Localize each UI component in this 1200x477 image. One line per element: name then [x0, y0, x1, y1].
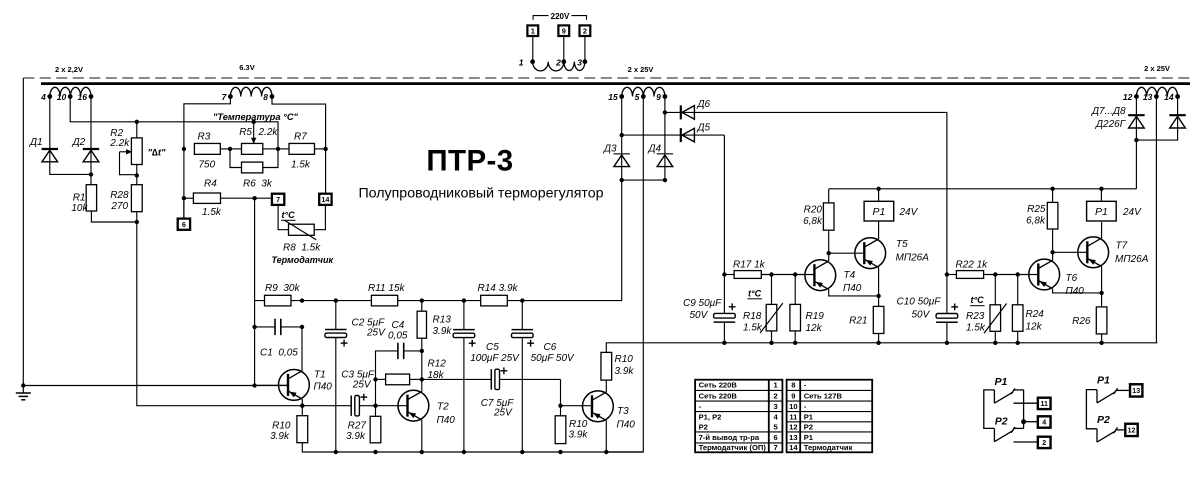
transistor T7 MP26A	[1078, 237, 1149, 268]
wire tap7-bridge	[184, 97, 231, 149]
resistor R4 1.5k	[184, 179, 272, 218]
svg-text:P2: P2	[1097, 414, 1110, 426]
svg-text:"Температура °С": "Температура °С"	[213, 112, 299, 122]
svg-text:T3: T3	[617, 406, 629, 417]
svg-text:C5: C5	[486, 342, 499, 353]
node R5-R7	[276, 147, 280, 151]
svg-text:2: 2	[1042, 440, 1046, 447]
wire P1a top	[878, 189, 880, 202]
node R27 bottom	[373, 450, 377, 454]
wire D1 anode	[50, 162, 91, 175]
node T1 collector-rail	[300, 298, 304, 302]
node C1 right	[300, 325, 304, 329]
wire top rail	[829, 188, 1137, 190]
secondary winding 6.3V	[222, 63, 275, 102]
svg-text:R22 1k: R22 1k	[956, 259, 989, 270]
wire D7 out down	[1135, 140, 1137, 189]
node contact common	[1021, 419, 1026, 424]
wire tap9 down	[664, 97, 666, 181]
wire T5 emitter	[878, 267, 880, 296]
svg-text:R5: R5	[239, 127, 252, 138]
node R24 top	[1016, 272, 1020, 276]
resistor R17 1k	[724, 259, 815, 278]
node T5 base	[827, 251, 831, 255]
relay contact P1 (group 2)	[1086, 375, 1117, 429]
svg-text:16: 16	[78, 92, 88, 102]
node D4-D6	[663, 110, 667, 114]
wire bridge left vertical	[183, 149, 185, 219]
node T6-T7 emitters	[1099, 291, 1103, 295]
wire C4 right	[404, 350, 422, 352]
node R23 top	[993, 272, 997, 276]
node R3-R5	[228, 147, 232, 151]
svg-text:П40: П40	[1066, 286, 1085, 297]
node R23 bottom	[993, 341, 997, 345]
wire main rail	[255, 180, 622, 301]
svg-text:7: 7	[276, 195, 280, 204]
svg-text:10: 10	[789, 402, 797, 411]
svg-text:Д7...Д8: Д7...Д8	[1091, 106, 1126, 117]
svg-text:1.5k: 1.5k	[202, 207, 222, 218]
wire tap13 down to 0V rail	[1155, 97, 1157, 343]
svg-text:24V: 24V	[1122, 207, 1142, 218]
svg-text:Д5: Д5	[697, 123, 711, 134]
svg-text:Термодатчик: Термодатчик	[272, 255, 334, 265]
diode D4	[648, 144, 674, 167]
svg-text:C6: C6	[544, 342, 557, 353]
svg-text:Термодатчик: Термодатчик	[804, 443, 853, 452]
wire D7-D8 join	[1136, 129, 1177, 141]
svg-text:6,8k: 6,8k	[803, 216, 823, 227]
transistor T3 P40	[583, 391, 636, 431]
node R2-R28	[135, 173, 139, 177]
svg-text:750: 750	[199, 159, 216, 170]
svg-text:11: 11	[1040, 401, 1048, 408]
svg-text:T5: T5	[896, 239, 908, 250]
resistor R7 1.5k	[278, 131, 326, 170]
svg-text:3: 3	[773, 402, 777, 411]
transformer core bar	[41, 82, 1190, 85]
svg-text:14: 14	[1164, 92, 1174, 102]
svg-text:5: 5	[635, 92, 640, 102]
svg-text:R21: R21	[849, 316, 867, 327]
wire R2 bottom	[136, 165, 138, 185]
terminal 1	[527, 25, 538, 36]
resistor R6 3k	[230, 149, 278, 189]
svg-text:25V: 25V	[366, 327, 386, 338]
wire tap10	[70, 97, 137, 122]
terminal 12	[1125, 424, 1137, 436]
node R7 right	[323, 147, 327, 151]
secondary winding 2x25V right	[1123, 64, 1180, 102]
svg-text:t°C: t°C	[971, 295, 985, 305]
node R22 left	[945, 272, 949, 276]
svg-text:R7: R7	[294, 131, 307, 142]
transistor T2 P40	[398, 390, 455, 426]
svg-text:1: 1	[519, 58, 524, 68]
wire T1 emitter	[301, 399, 303, 416]
node R12 left	[373, 377, 377, 381]
resistor R13 3.9k	[417, 301, 452, 351]
wire R7-term14	[325, 149, 327, 194]
node R26 bottom	[1099, 341, 1103, 345]
wire C7-T3 base	[560, 379, 562, 405]
node C10 bottom	[945, 341, 949, 345]
svg-text:25V: 25V	[352, 380, 372, 391]
node R4-term7	[252, 196, 256, 200]
svg-text:Д1: Д1	[29, 137, 43, 148]
svg-text:Р2: Р2	[699, 422, 708, 431]
wire T4 collector	[828, 253, 830, 261]
node D3-D5	[620, 133, 624, 137]
label 220V	[551, 12, 570, 21]
wire P1b top	[1100, 189, 1102, 202]
wire contact to terminal 2	[1014, 441, 1038, 443]
svg-text:0,05: 0,05	[388, 330, 408, 341]
primary winding W1 220V	[519, 58, 588, 71]
svg-text:R26: R26	[1072, 316, 1091, 327]
svg-text:T4: T4	[844, 270, 856, 281]
svg-text:12: 12	[789, 422, 797, 431]
node C5-rail	[462, 298, 466, 302]
svg-text:3.9k: 3.9k	[433, 326, 453, 337]
node C5 bottom	[462, 450, 466, 454]
resistor R26	[1072, 293, 1107, 343]
svg-text:t°C: t°C	[282, 210, 296, 220]
svg-text:Термодатчик (ОП): Термодатчик (ОП)	[699, 443, 767, 452]
svg-text:9: 9	[656, 92, 661, 102]
svg-text:R18: R18	[743, 311, 762, 322]
svg-text:R10: R10	[569, 419, 588, 430]
terminal table left	[695, 380, 782, 453]
relay contact P2 (group 2)	[1097, 414, 1118, 442]
svg-text:Р1: Р1	[804, 433, 814, 442]
svg-text:2 x 2,2V: 2 x 2,2V	[55, 65, 83, 74]
thermistor R23 1.5k	[966, 275, 1007, 343]
wire terminal2-tap3	[584, 36, 586, 62]
svg-text:C9 50μF: C9 50μF	[683, 298, 722, 309]
svg-text:Д3: Д3	[603, 144, 617, 155]
wire T7 collector	[1101, 222, 1103, 238]
relay coil P1 (right)	[1087, 201, 1143, 221]
wire T6 emitter	[1053, 289, 1102, 293]
svg-text:2 x 25V: 2 x 25V	[628, 65, 654, 74]
terminal 13	[1130, 384, 1142, 396]
terminal 6	[178, 198, 190, 230]
svg-text:7-й вывод тр-ра: 7-й вывод тр-ра	[699, 433, 760, 442]
svg-text:R1: R1	[73, 193, 86, 204]
svg-text:Д6: Д6	[697, 99, 711, 110]
wire T6 collector	[1052, 252, 1054, 260]
svg-text:50V: 50V	[912, 310, 931, 321]
resistor R1 10k	[71, 185, 96, 214]
svg-text:13: 13	[1132, 388, 1140, 395]
node R24 bottom	[1016, 341, 1020, 345]
svg-text:Полупроводниковый терморегулят: Полупроводниковый терморегулятор	[358, 186, 603, 202]
wire bridge bottom	[622, 179, 665, 181]
svg-text:Сеть 127В: Сеть 127В	[804, 391, 843, 400]
svg-text:9: 9	[791, 391, 795, 400]
secondary winding 2x2.2V	[40, 65, 93, 102]
wire C4 branch	[376, 351, 398, 406]
node T2 base	[373, 404, 377, 408]
svg-text:14: 14	[789, 443, 798, 452]
svg-text:Сеть 220В: Сеть 220В	[699, 391, 738, 400]
thermistor R8 1.5k (thermo sensor)	[272, 205, 334, 265]
svg-text:R17 1k: R17 1k	[733, 259, 766, 270]
terminal 4	[1038, 416, 1051, 427]
wire dt line	[137, 122, 278, 149]
svg-text:3.9k: 3.9k	[615, 366, 635, 377]
svg-text:P2: P2	[995, 415, 1008, 427]
wire tap15 down	[621, 97, 623, 181]
terminal 14	[319, 194, 331, 205]
node above R2	[135, 120, 139, 124]
wire D2 anode	[90, 162, 92, 185]
svg-text:3.9k: 3.9k	[270, 431, 290, 442]
svg-text:2.2k: 2.2k	[109, 138, 130, 149]
node R10 bottom	[558, 450, 562, 454]
node R19 bottom	[793, 341, 797, 345]
svg-text:8: 8	[263, 92, 268, 102]
capacitor C7 5uF 25V	[422, 367, 561, 418]
node T2 emitter bottom	[420, 450, 424, 454]
svg-text:T7: T7	[1116, 241, 1128, 252]
svg-text:R6 3k: R6 3k	[243, 178, 273, 189]
capacitor C6 50uF 50V	[512, 301, 576, 452]
wire bottom rail	[302, 443, 643, 452]
relay coil P1 (left)	[864, 201, 919, 221]
svg-text:1.5k: 1.5k	[291, 159, 311, 170]
node bridge out	[620, 178, 624, 182]
svg-text:6.3V: 6.3V	[239, 63, 254, 72]
svg-text:C10 50μF: C10 50μF	[897, 297, 942, 308]
wire R13-R12	[421, 351, 423, 380]
terminal table right	[787, 380, 873, 453]
svg-text:3.9k: 3.9k	[569, 429, 589, 440]
node R3 left	[182, 147, 186, 151]
svg-text:P1: P1	[995, 376, 1008, 388]
svg-text:T2: T2	[437, 402, 449, 413]
svg-text:Д226Г: Д226Г	[1095, 119, 1127, 130]
wire contact to terminal 4	[1024, 421, 1038, 423]
wire C3-T2base	[360, 405, 376, 407]
capacitor C10 50uF 50V	[897, 275, 959, 343]
svg-text:ПТР-3: ПТР-3	[426, 145, 513, 178]
diode D2	[72, 137, 100, 162]
potentiometer R2 2.2k	[109, 128, 166, 175]
resistor R19 12k	[790, 275, 824, 343]
terminal 11	[1038, 398, 1051, 409]
svg-text:P1: P1	[872, 206, 885, 218]
svg-text:R11 15k: R11 15k	[368, 283, 406, 294]
transistor T5 MP26A	[855, 238, 929, 269]
svg-text:1.5k: 1.5k	[743, 322, 763, 333]
svg-text:R9 30k: R9 30k	[265, 283, 300, 294]
svg-text:6: 6	[773, 433, 777, 442]
wire T1 base	[255, 384, 288, 386]
svg-text:3: 3	[577, 58, 582, 68]
svg-text:R20: R20	[804, 204, 823, 215]
wire T2 emitter	[421, 420, 423, 452]
svg-text:R28: R28	[110, 190, 129, 201]
wire contact to terminal 11	[1014, 402, 1038, 404]
node R19 top	[793, 272, 797, 276]
resistor R22 1k	[947, 259, 1040, 278]
bracket 220V	[533, 16, 586, 20]
wire contact to terminal 12	[1117, 429, 1126, 431]
svg-text:2.2k: 2.2k	[258, 127, 279, 138]
node bridge corner	[663, 178, 667, 182]
svg-text:6: 6	[182, 220, 186, 229]
node R18 bottom	[769, 341, 773, 345]
wire R10c top	[605, 343, 607, 353]
diode D5	[622, 123, 725, 143]
wire T3 emitter	[605, 421, 607, 453]
resistor R10 3.9k (T1 emitter)	[270, 416, 308, 443]
svg-text:R23: R23	[966, 311, 985, 322]
relay contact P2 (group 1)	[994, 415, 1023, 441]
svg-text:П40: П40	[437, 415, 456, 426]
node R25-rail	[1050, 187, 1054, 191]
svg-text:6,8k: 6,8k	[1026, 215, 1046, 226]
terminal 9	[558, 25, 569, 36]
ground symbol	[16, 383, 31, 400]
wire tap16-D2	[90, 97, 92, 163]
node R13-rail	[420, 298, 424, 302]
wire T1 collector	[301, 327, 303, 371]
thermistor R18 1.5k	[743, 275, 783, 343]
wire tap5 center-tap to bottom rail	[606, 97, 643, 453]
wire term7-node vertical	[254, 198, 256, 385]
capacitor C1 0,05	[255, 319, 302, 359]
svg-text:R10: R10	[615, 354, 634, 365]
svg-text:t°C: t°C	[748, 288, 762, 298]
resistor R14 3.9k	[478, 283, 519, 306]
svg-text:12k: 12k	[806, 323, 823, 334]
svg-text:12k: 12k	[1026, 321, 1043, 332]
transformer core (dashed shield line)	[23, 77, 1193, 79]
ground rail	[23, 385, 288, 387]
svg-text:"∆t": "∆t"	[148, 148, 166, 159]
svg-text:13: 13	[1143, 92, 1153, 102]
svg-text:P1: P1	[1095, 206, 1108, 218]
node R5 wiper	[252, 120, 256, 124]
resistor R20 6,8k	[803, 189, 834, 253]
node C2 bottom	[334, 450, 338, 454]
svg-text:P1: P1	[1097, 375, 1110, 387]
terminal 7	[272, 194, 284, 205]
node C6 bottom	[520, 450, 524, 454]
diode D8	[1169, 115, 1185, 128]
svg-text:R3: R3	[198, 131, 211, 142]
svg-text:11: 11	[789, 412, 798, 421]
svg-text:25V: 25V	[493, 408, 513, 419]
svg-text:R14 3.9k: R14 3.9k	[478, 283, 519, 294]
wire T4 emitter	[829, 289, 879, 296]
node C1 left	[252, 325, 256, 329]
resistor R10 3.9k (T3 base)	[555, 406, 588, 444]
diode D7	[1091, 106, 1145, 130]
svg-text:12: 12	[1128, 427, 1136, 434]
resistor R21	[849, 296, 884, 343]
node R21 bottom	[876, 341, 880, 345]
svg-text:Д2: Д2	[72, 137, 86, 148]
node D7 out	[1134, 138, 1138, 142]
wire shield-to-ground	[22, 78, 24, 386]
svg-text:9: 9	[562, 26, 566, 35]
resistor R25 6,8k	[1026, 189, 1058, 253]
svg-text:МП26А: МП26А	[896, 253, 930, 264]
wire T7 base	[1053, 251, 1088, 253]
svg-text:0,05: 0,05	[278, 348, 298, 359]
wire T3 base	[561, 405, 593, 407]
wire P1-P2 link	[1023, 390, 1025, 429]
capacitor C3 5uF	[341, 369, 375, 416]
node D1-D2-R1	[89, 172, 93, 176]
svg-text:Сеть 220В: Сеть 220В	[699, 381, 738, 390]
svg-text:1.5k: 1.5k	[966, 322, 986, 333]
potentiometer R5 2.2k	[230, 124, 278, 154]
resistor R27 3.9k	[346, 406, 381, 443]
node T4-T5 emitters	[876, 294, 880, 298]
svg-text:Р1: Р1	[804, 412, 814, 421]
wire D5 out down	[723, 135, 725, 274]
svg-text:R12: R12	[428, 359, 447, 370]
svg-text:100μF 25V: 100μF 25V	[470, 353, 520, 364]
wire T2 base	[376, 405, 409, 407]
wire T7 emitter	[1101, 267, 1103, 293]
node T7 base	[1050, 250, 1054, 254]
wire R1 bottom	[91, 211, 136, 222]
resistor R10 3.9k (T3 collector)	[601, 352, 634, 380]
wire tap8-bridge	[272, 97, 326, 149]
svg-text:T1: T1	[314, 370, 326, 381]
svg-text:7: 7	[773, 443, 777, 452]
wire T2 collector	[421, 379, 423, 391]
relay contact P1 (group 1)	[984, 376, 1024, 429]
wire T5 base	[829, 252, 866, 254]
wire 0V rail	[606, 342, 1158, 344]
diode D1	[29, 137, 58, 162]
wire R28 to T1 emitter line	[137, 212, 351, 406]
capacitor C5 100uF 25V	[453, 301, 520, 452]
wire contact to terminal 13	[1117, 389, 1130, 391]
svg-text:R24: R24	[1026, 309, 1045, 320]
node C6-rail	[520, 298, 524, 302]
svg-text:4: 4	[1042, 420, 1046, 427]
svg-text:2: 2	[555, 58, 561, 68]
svg-text:R25: R25	[1027, 204, 1046, 215]
svg-text:3.9k: 3.9k	[346, 431, 366, 442]
svg-text:2: 2	[583, 26, 587, 35]
capacitor C9 50uF 50V	[683, 275, 736, 343]
wire D6 out down	[946, 112, 948, 274]
resistor R24 12k	[1012, 275, 1044, 343]
svg-text:Р2: Р2	[804, 422, 813, 431]
wire T5 collector	[878, 221, 880, 239]
wire tap4-D1	[49, 97, 51, 163]
svg-text:R27: R27	[348, 420, 367, 431]
node T3 base	[558, 404, 562, 408]
svg-text:П40: П40	[843, 283, 862, 294]
svg-text:Р1, Р2: Р1, Р2	[699, 412, 722, 421]
svg-text:R4: R4	[204, 179, 217, 190]
svg-text:R13: R13	[433, 314, 452, 325]
node R1-R28	[135, 220, 139, 224]
transistor T4 P40	[805, 260, 862, 294]
node R4 left	[182, 196, 186, 200]
